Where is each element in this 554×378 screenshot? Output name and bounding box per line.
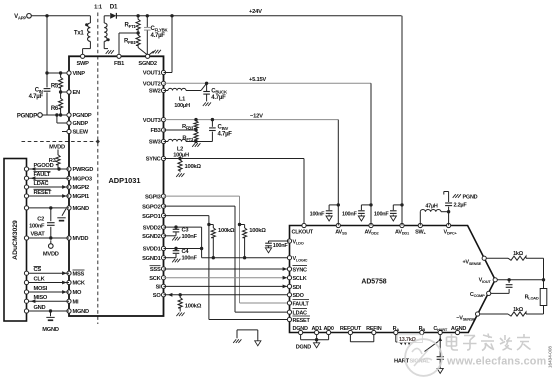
wire SLEW stub: [62, 131, 69, 133]
svg-text:Tx1: Tx1: [74, 30, 85, 36]
svg-text:+5.15V: +5.15V: [249, 77, 266, 83]
svg-text:47µH: 47µH: [425, 203, 438, 209]
svg-text:SSS: SSS: [150, 267, 161, 273]
svg-text:FB1: FB1: [114, 61, 124, 67]
wire SGPO1 to RESET: [164, 216, 290, 320]
wire SVDD1: [164, 247, 202, 250]
label HART SIGNAL: [394, 359, 430, 365]
svg-text:L1: L1: [179, 97, 185, 103]
svg-text:AD5758: AD5758: [361, 279, 386, 286]
svg-text:GNDP: GNDP: [73, 121, 89, 127]
svg-text:1kΩ: 1kΩ: [513, 307, 524, 313]
label CBUCK: [211, 88, 228, 101]
svg-text:R6: R6: [51, 106, 59, 112]
capacitor CINV 4.7uF: [196, 120, 216, 142]
wire PGNDP: [42, 113, 69, 116]
svg-text:RFB1: RFB1: [124, 39, 136, 45]
svg-text:100nF: 100nF: [374, 211, 390, 217]
ground tie SGND-DGND: [233, 330, 261, 346]
svg-text:MO: MO: [73, 290, 82, 296]
AD5758 top pins: [292, 223, 458, 235]
wire SCK to SCLK: [164, 276, 290, 280]
svg-text:SW3: SW3: [149, 140, 161, 146]
wire RESET: [29, 189, 69, 198]
terminal VAPP: [14, 14, 31, 21]
svg-text:CBUCK: CBUCK: [211, 88, 228, 94]
svg-text:MISO: MISO: [34, 295, 48, 301]
wire HART pointer: [425, 341, 439, 351]
resistor RFT1: [124, 16, 140, 33]
wire C2 top: [50, 208, 52, 221]
op-amp U1 ADP1031 body: [69, 56, 164, 316]
resistor 100k SO pulldown: [176, 295, 201, 316]
svg-text:100nF: 100nF: [182, 256, 198, 262]
svg-text:4.7µF: 4.7µF: [211, 95, 226, 101]
svg-text:SVDD1: SVDD1: [143, 247, 161, 253]
wire SGND1: [164, 257, 177, 259]
svg-text:DGND: DGND: [293, 326, 308, 332]
svg-text:VIOUT: VIOUT: [479, 278, 492, 284]
wire VLOGIC rail: [202, 249, 290, 258]
svg-text:VLOGIC: VLOGIC: [293, 256, 308, 262]
svg-text:LDAC: LDAC: [34, 181, 49, 187]
svg-text:RFT1: RFT1: [124, 23, 136, 29]
label 2.2uF: [454, 203, 468, 209]
svg-text:100µH: 100µH: [174, 103, 190, 109]
svg-text:VBAT: VBAT: [30, 232, 45, 238]
wire SGPO2 to LDAC: [164, 206, 290, 312]
svg-text:2.2µF: 2.2µF: [454, 203, 468, 209]
resistor RFT3: [182, 130, 198, 142]
watermark glyphs: [447, 334, 531, 351]
capacitor 100nF AVDD2: [342, 205, 371, 221]
svg-text:VINP: VINP: [73, 71, 86, 77]
wire DGND AD1 AD0 tie: [301, 335, 329, 342]
capacitor 2.2uF: [444, 192, 452, 226]
svg-text:4.7µF: 4.7µF: [29, 94, 44, 100]
wire +24V rail: [117, 14, 402, 17]
ADuCM3029 pins: [24, 167, 28, 313]
svg-text:VLDO: VLDO: [293, 239, 304, 245]
svg-text:C2: C2: [37, 217, 44, 223]
ADP1031 left pins: [67, 71, 93, 315]
DAC U3 AD5758 body: [290, 226, 496, 333]
watermark stamp circle: [405, 339, 442, 376]
svg-text:GND: GND: [34, 305, 46, 311]
wire LDAC: [29, 180, 69, 189]
svg-text:EN: EN: [73, 90, 81, 96]
svg-text:SGND2: SGND2: [142, 234, 160, 240]
svg-text:MGND: MGND: [73, 206, 90, 212]
ground MGND upper: [57, 209, 66, 222]
svg-text:CHART: CHART: [433, 326, 448, 332]
svg-text:4.7µF: 4.7µF: [218, 131, 233, 137]
svg-text:R3: R3: [49, 158, 56, 164]
wire GNDP tie: [57, 115, 69, 123]
svg-text:SGND2: SGND2: [138, 61, 156, 67]
AD5758 right pins: [456, 256, 497, 321]
AD5758 left pins: [287, 239, 310, 324]
wire VIOUT: [497, 278, 545, 281]
resistor 1k -VSENSE: [480, 307, 544, 316]
svg-text:100kΩ: 100kΩ: [185, 304, 202, 310]
svg-text:FAULT: FAULT: [293, 301, 310, 307]
svg-text:SWP: SWP: [76, 61, 89, 67]
svg-text:RLOAD: RLOAD: [525, 294, 539, 300]
svg-text:FB3: FB3: [151, 128, 161, 134]
terminal PGNDP: [17, 113, 42, 120]
wire AVDD1 supply: [400, 16, 403, 226]
resistor 13.7kOhm RA-RB: [396, 335, 422, 345]
svg-text:100nF: 100nF: [182, 234, 198, 240]
svg-text:SGPO2: SGPO2: [142, 204, 160, 210]
svg-text:MVDD: MVDD: [73, 236, 89, 242]
label L1: [174, 97, 190, 110]
svg-text:SGPO1: SGPO1: [142, 214, 160, 220]
svg-text:VOUT3: VOUT3: [143, 118, 161, 124]
capacitor 100nF AVDD1: [374, 205, 402, 221]
svg-text:SCLK: SCLK: [293, 276, 307, 282]
ADP1031 top pins SWP FB1 SGND2: [76, 54, 156, 67]
wire SSS to SYNC: [164, 267, 290, 271]
svg-text:SCK: SCK: [149, 276, 161, 282]
svg-text:ADuCM3029: ADuCM3029: [12, 220, 19, 260]
svg-text:R5: R5: [51, 84, 59, 90]
svg-text:4.7µF: 4.7µF: [151, 33, 166, 39]
wire SVDD2: [164, 225, 202, 228]
capacitor C2 100nF: [29, 217, 55, 230]
svg-text:VOUT2: VOUT2: [143, 82, 161, 88]
transformer Tx1 primary: [74, 16, 90, 54]
wire MOSI: [29, 286, 69, 294]
resistor R5: [51, 73, 63, 92]
svg-text:−12V: −12V: [250, 113, 263, 119]
svg-text:16434-008: 16434-008: [548, 346, 553, 368]
svg-text:100kΩ: 100kΩ: [249, 228, 266, 234]
svg-text:PGNDP: PGNDP: [73, 113, 92, 119]
wire SGPI3 to FAULT: [164, 196, 290, 303]
svg-text:SLEW: SLEW: [73, 130, 89, 136]
wire VAPP down to CIN: [46, 16, 48, 88]
wire CLK: [29, 277, 69, 285]
wire VOUT1 to +24V: [164, 16, 173, 73]
svg-text:1:1: 1:1: [94, 5, 103, 11]
svg-text:MCK: MCK: [73, 281, 86, 287]
svg-text:MGPI2: MGPI2: [73, 185, 90, 191]
wire CHART down: [438, 335, 442, 357]
svg-text:MGND: MGND: [73, 309, 90, 315]
wire +5.15V rail: [164, 77, 372, 85]
svg-text:SW+: SW+: [415, 229, 426, 235]
wire SYNC to CLKOUT: [164, 157, 305, 226]
wire VINP: [45, 71, 69, 74]
ground MGND lower: [42, 311, 59, 333]
label 1:1: [94, 5, 103, 11]
label C3: [182, 228, 198, 241]
svg-text:100kΩ: 100kΩ: [185, 164, 202, 170]
svg-text:C4: C4: [182, 249, 190, 255]
wire PGOOD: [29, 163, 69, 171]
svg-text:CIN: CIN: [35, 88, 43, 94]
svg-text:RFT3: RFT3: [182, 136, 194, 142]
svg-text:+VSENSE: +VSENSE: [462, 260, 481, 266]
svg-text:CLKOUT: CLKOUT: [292, 229, 314, 235]
capacitor 100nF VLDO: [265, 241, 289, 253]
svg-text:RESET: RESET: [34, 190, 52, 196]
resistor R6: [51, 92, 63, 115]
svg-text:RA: RA: [393, 326, 400, 332]
wire CIN bottom: [46, 92, 48, 115]
svg-text:SI: SI: [156, 285, 162, 291]
svg-text:DGND: DGND: [296, 345, 311, 351]
label L2: [173, 146, 189, 158]
svg-text:www.elecfans.com: www.elecfans.com: [446, 356, 546, 368]
resistor 1k +VSENSE: [486, 251, 543, 280]
svg-text:AGND: AGND: [451, 326, 466, 332]
wire CS: [29, 267, 69, 276]
resistor 100k pullup SGPI3: [238, 223, 266, 260]
svg-text:AD0: AD0: [323, 326, 333, 332]
transformer Tx1 secondary: [104, 16, 110, 49]
svg-text:SYNC: SYNC: [293, 267, 308, 273]
svg-text:MGND: MGND: [42, 327, 59, 333]
svg-text:CFLYBK: CFLYBK: [151, 26, 169, 32]
svg-text:REFOUT: REFOUT: [340, 326, 362, 332]
label CINV: [218, 125, 233, 138]
svg-text:MOSI: MOSI: [34, 286, 48, 292]
svg-text:MGPO3: MGPO3: [73, 176, 92, 182]
wire FAULT: [29, 172, 69, 181]
wire SGND2 lower: [164, 235, 177, 237]
svg-text:VOUT1: VOUT1: [143, 71, 161, 77]
wire AVSS supply: [337, 120, 340, 226]
ground PGND: [453, 194, 478, 201]
svg-text:100nF: 100nF: [29, 223, 45, 229]
label C4: [182, 249, 198, 262]
svg-text:PGNDP: PGNDP: [17, 114, 37, 120]
resistor 100k SYNC: [176, 159, 201, 177]
svg-text:CINV: CINV: [218, 125, 229, 131]
label CFLYBK 4.7uF: [151, 26, 169, 39]
MCU U2 ADuCM3029 body: [4, 159, 27, 322]
ground SGND2: [149, 50, 161, 55]
AD5758 bottom pins: [293, 326, 467, 335]
svg-text:MSS: MSS: [73, 271, 85, 277]
svg-text:PWRGD: PWRGD: [73, 167, 94, 173]
svg-text:SGND1: SGND1: [142, 256, 160, 262]
resistor RFB1: [124, 33, 140, 48]
svg-text:CS: CS: [34, 267, 42, 273]
terminal MVDD: [43, 240, 59, 257]
svg-text:CCOMP: CCOMP: [470, 292, 485, 298]
wire RFB1 to SGND2: [138, 48, 147, 55]
isolation barrier (dashed): [22, 13, 100, 325]
svg-text:D1: D1: [110, 4, 118, 11]
capacitor CBUCK 4.7uF: [203, 83, 211, 106]
wire SO to SDO: [164, 293, 290, 297]
svg-text:SO: SO: [153, 293, 162, 299]
diode D1: [110, 4, 118, 19]
label +24V: [249, 9, 262, 15]
svg-text:1kΩ: 1kΩ: [513, 251, 524, 257]
svg-text:AD1: AD1: [311, 326, 321, 332]
svg-text:AVDD2: AVDD2: [365, 229, 380, 235]
svg-text:RB: RB: [419, 326, 426, 332]
capacitor CHART coupling: [437, 357, 444, 374]
wire EN: [59, 90, 69, 93]
ground L2 junction: [192, 143, 200, 147]
svg-text:SW2: SW2: [149, 89, 161, 95]
svg-text:MI: MI: [73, 299, 79, 305]
svg-text:SDI: SDI: [293, 285, 302, 291]
capacitor CFLYBK: [144, 16, 151, 54]
resistor R3 pullup MVDD: [49, 144, 65, 169]
resistor RLOAD: [525, 280, 547, 314]
svg-text:PGND: PGND: [463, 195, 478, 201]
svg-text:100kΩ: 100kΩ: [218, 228, 235, 234]
capacitor CIN 4.7uF: [29, 88, 51, 101]
svg-text:100nF: 100nF: [273, 243, 289, 249]
svg-text:VDPC+: VDPC+: [443, 229, 457, 235]
resistor RFB3: [182, 120, 198, 131]
svg-text:SGPI3: SGPI3: [145, 194, 161, 200]
wire SI to SDI: [164, 285, 290, 289]
wire GND: [29, 305, 69, 313]
svg-text:FAULT: FAULT: [34, 172, 51, 178]
svg-text:AVSS: AVSS: [335, 229, 347, 235]
svg-text:+24V: +24V: [249, 9, 262, 15]
svg-text:REFIN: REFIN: [366, 326, 382, 332]
svg-text:MVDD: MVDD: [43, 251, 59, 257]
ADP1031 right pins: [142, 70, 165, 299]
ground DGND: [296, 341, 320, 350]
svg-text:CLK: CLK: [34, 277, 46, 283]
wire -12V rail: [164, 113, 339, 121]
resistor 100k pullup SGPO1: [207, 223, 235, 260]
svg-text:MGPI1: MGPI1: [73, 194, 90, 200]
svg-text:HART: HART: [394, 359, 410, 365]
svg-text:SDO: SDO: [293, 293, 305, 299]
svg-text:VAPP: VAPP: [14, 14, 26, 20]
capacitor C3 100nF: [172, 227, 180, 240]
wire VBAT: [29, 232, 69, 240]
svg-text:ADP1031: ADP1031: [108, 176, 140, 185]
inductor 47uH: [420, 203, 450, 225]
label 13.7kOhm: [398, 335, 423, 343]
svg-text:100nF: 100nF: [342, 211, 358, 217]
wire FB3: [164, 128, 198, 131]
wire AVDD2 supply: [369, 83, 372, 225]
wire C2 bottom: [50, 227, 52, 238]
svg-text:AVDD1: AVDD1: [395, 229, 410, 235]
svg-text:SVDD2: SVDD2: [143, 225, 161, 231]
capacitor CCOMP: [491, 280, 513, 294]
wire MISO: [29, 295, 69, 303]
wire MGND link: [29, 206, 69, 209]
svg-text:C3: C3: [182, 228, 189, 234]
wire REFOUT to REFIN: [350, 335, 373, 342]
ground secondary: [106, 50, 114, 54]
capacitor C4 100nF: [172, 249, 180, 263]
wire VAPP rail: [31, 14, 90, 17]
svg-text:RESET: RESET: [293, 318, 311, 324]
svg-text:SYNC: SYNC: [146, 157, 161, 163]
svg-text:MVDD: MVDD: [49, 144, 65, 150]
svg-text:−VSENSE: −VSENSE: [456, 315, 475, 321]
capacitor 100nF AVSS: [310, 205, 339, 221]
svg-text:100nF: 100nF: [310, 211, 326, 217]
inductor L1 100uH: [164, 83, 207, 90]
wire FB1 divider tap: [119, 31, 140, 54]
inductor L2 100uH: [164, 139, 198, 143]
svg-text:RFB3: RFB3: [182, 124, 194, 130]
wire SVDD2 to SVDD1: [200, 227, 203, 250]
